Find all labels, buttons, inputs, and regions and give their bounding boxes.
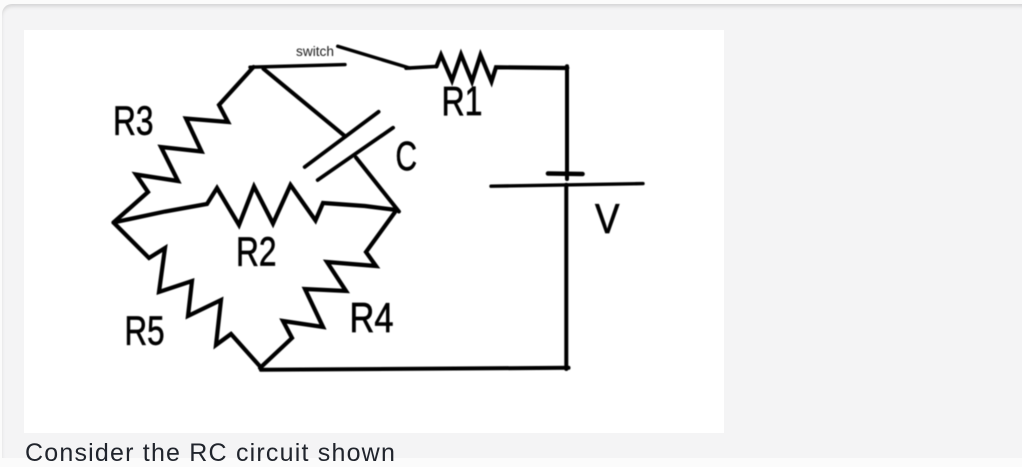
- resistor R4: [260, 210, 397, 368]
- resistor R1: [437, 55, 568, 82]
- capacitor C plate 2: [318, 128, 393, 180]
- wire from battery down to bottom: [564, 185, 568, 369]
- resistor R2: [114, 185, 397, 225]
- bottom wire: [261, 368, 569, 370]
- svg-text:V: V: [595, 195, 620, 242]
- caption text (cut off at bottom): [25, 441, 396, 466]
- resistor R3: [114, 67, 254, 223]
- capacitor C plate 1: [305, 112, 379, 167]
- switch lever: [338, 46, 410, 68]
- wire from top node to switch: [250, 65, 345, 68]
- resistor R5: [114, 223, 261, 368]
- svg-text:R2: R2: [236, 229, 277, 275]
- svg-text:R3: R3: [113, 98, 154, 144]
- svg-text:switch: switch: [296, 44, 334, 59]
- svg-text:R5: R5: [125, 308, 165, 354]
- white circuit image area: [24, 30, 724, 433]
- battery top plate: [548, 171, 583, 176]
- svg-text:C: C: [396, 133, 418, 179]
- battery long plate: [491, 184, 643, 187]
- svg-text:R1: R1: [442, 78, 483, 124]
- wire from capacitor to right node: [356, 158, 399, 212]
- wire from switch to R1: [406, 66, 437, 68]
- wire from R1 down to battery: [565, 66, 569, 179]
- wire from top node to capacitor: [264, 69, 346, 137]
- svg-text:R4: R4: [350, 294, 394, 341]
